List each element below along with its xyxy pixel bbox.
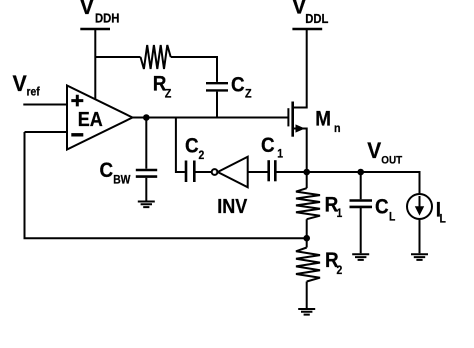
svg-text:BW: BW (113, 174, 131, 187)
svg-text:2: 2 (199, 150, 205, 163)
svg-text:Z: Z (165, 88, 172, 101)
svg-text:INV: INV (217, 196, 247, 218)
svg-text:L: L (389, 211, 396, 224)
svg-text:OUT: OUT (381, 155, 402, 167)
svg-text:EA: EA (78, 109, 103, 131)
svg-text:M: M (315, 108, 331, 131)
svg-text:ref: ref (27, 86, 41, 99)
svg-text:L: L (440, 213, 447, 226)
svg-text:C: C (185, 135, 199, 158)
svg-text:1: 1 (277, 148, 283, 161)
svg-text:n: n (334, 123, 341, 136)
svg-text:V: V (13, 70, 28, 96)
svg-text:1: 1 (337, 208, 343, 221)
svg-text:DDL: DDL (305, 11, 328, 26)
svg-text:C: C (231, 74, 245, 97)
svg-text:2: 2 (337, 265, 343, 278)
svg-text:C: C (261, 134, 275, 157)
svg-text:DDH: DDH (95, 11, 119, 26)
svg-text:V: V (80, 0, 95, 19)
svg-text:C: C (375, 196, 389, 219)
svg-text:Z: Z (245, 88, 252, 101)
svg-text:V: V (367, 138, 382, 163)
svg-text:C: C (100, 159, 114, 182)
